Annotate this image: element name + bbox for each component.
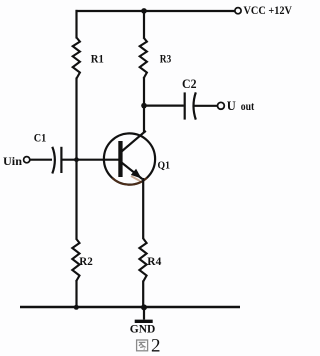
svg-text:2: 2 bbox=[151, 336, 161, 356]
wire: input to C1 bbox=[30, 159, 52, 161]
wire: collector rail to transistor bbox=[143, 78, 145, 134]
svg-text:GND: GND bbox=[130, 322, 156, 336]
junction: emitter rail / ground rail bbox=[141, 304, 147, 310]
wire: C1 to base bbox=[61, 159, 118, 161]
wire: left rail middle segment bbox=[75, 78, 77, 240]
svg-text:R3: R3 bbox=[160, 52, 172, 66]
terminal VCC bbox=[235, 8, 241, 14]
junction: left rail / ground rail bbox=[74, 305, 79, 310]
transistor Q1 bbox=[104, 131, 155, 185]
svg-text:Uin: Uin bbox=[3, 156, 23, 168]
svg-text:R4: R4 bbox=[147, 254, 161, 268]
wire: emitter rail down bbox=[142, 178, 144, 239]
caption figure glyph (CJK) bbox=[137, 340, 148, 351]
svg-text:C1: C1 bbox=[34, 131, 47, 145]
wire: VCC top rail bbox=[76, 10, 235, 12]
wire: left rail top segment bbox=[75, 10, 77, 39]
resistor R1 bbox=[73, 38, 80, 79]
terminal U out bbox=[218, 102, 225, 109]
terminal Uin bbox=[24, 157, 30, 163]
junction: bias divider / base wire bbox=[74, 157, 79, 162]
capacitor C1 bbox=[52, 147, 61, 174]
resistor R3 bbox=[140, 38, 147, 79]
wire: collector rail top segment bbox=[143, 10, 145, 39]
ground symbol bbox=[135, 307, 153, 321]
svg-text:R2: R2 bbox=[79, 254, 93, 268]
resistor R2 bbox=[72, 239, 79, 282]
wire: ground rail bbox=[20, 306, 240, 308]
svg-text:Q1: Q1 bbox=[158, 160, 171, 172]
capacitor C2 bbox=[185, 92, 196, 119]
wire: C2 branch bbox=[144, 104, 184, 106]
svg-text:out: out bbox=[241, 101, 255, 113]
svg-text:C2: C2 bbox=[182, 77, 197, 91]
svg-text:U: U bbox=[227, 99, 236, 113]
wire: left rail bottom segment bbox=[75, 281, 77, 308]
svg-text:R1: R1 bbox=[91, 52, 104, 66]
junction: C2 tap on collector rail bbox=[141, 103, 147, 109]
wire: C2 to output terminal bbox=[195, 105, 218, 107]
svg-text:VCC +12V: VCC +12V bbox=[244, 3, 293, 17]
wire: R4 to ground rail bbox=[142, 281, 144, 308]
resistor R4 bbox=[139, 239, 146, 282]
junction: top rail / R3 branch bbox=[141, 8, 147, 14]
